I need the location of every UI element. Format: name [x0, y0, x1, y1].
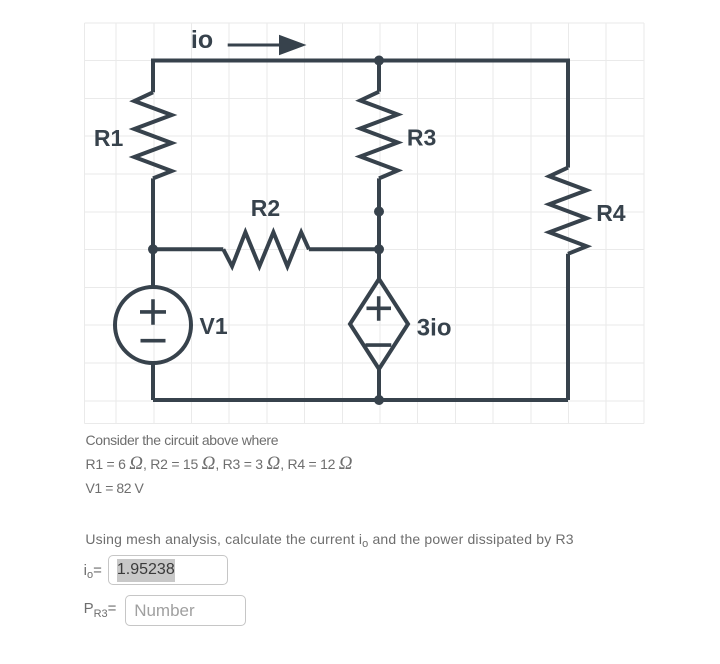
wire bottom	[153, 398, 568, 402]
label io=	[84, 562, 102, 579]
grid background	[84, 23, 644, 424]
voltage source V1	[115, 287, 191, 363]
selected answer text 1.95238	[117, 559, 175, 582]
wire middle lower	[377, 369, 381, 400]
resistor R2	[223, 232, 309, 266]
placeholder Number	[134, 601, 194, 621]
wire left middle	[151, 178, 155, 287]
problem statement line 3	[86, 480, 144, 496]
wire middle middle	[377, 178, 381, 279]
resistor R4	[549, 168, 586, 254]
resistor R1	[134, 92, 171, 178]
svg-text:V1: V1	[200, 313, 228, 339]
svg-text:R4: R4	[596, 200, 626, 226]
dependent source 3io diamond	[350, 279, 408, 369]
junction node top middle	[374, 56, 384, 66]
wire R2 right segment	[309, 247, 379, 251]
answer input PR3	[125, 595, 246, 626]
wire top	[153, 59, 568, 63]
label PR3=	[84, 600, 117, 617]
wire right lower	[566, 254, 570, 400]
junction node middle upper	[374, 207, 384, 217]
problem statement line 2	[86, 453, 353, 475]
problem statement line 1	[86, 432, 279, 448]
wire R2 left segment	[153, 247, 223, 251]
wire middle upper	[377, 61, 381, 92]
junction node bottom middle	[374, 395, 384, 405]
svg-text:R3: R3	[407, 125, 436, 151]
answer input io	[108, 555, 228, 586]
svg-text:R1: R1	[94, 125, 124, 151]
question line	[85, 531, 573, 547]
resistor R3	[360, 92, 397, 179]
junction node middle R2	[374, 244, 384, 254]
svg-text:R2: R2	[251, 195, 280, 221]
wire left upper	[151, 59, 155, 93]
junction node left R2	[148, 244, 158, 254]
wire left lower	[151, 363, 155, 400]
current arrow io	[228, 35, 307, 55]
svg-text:3io: 3io	[417, 315, 452, 342]
wire right upper	[566, 59, 570, 168]
svg-text:io: io	[191, 26, 213, 54]
